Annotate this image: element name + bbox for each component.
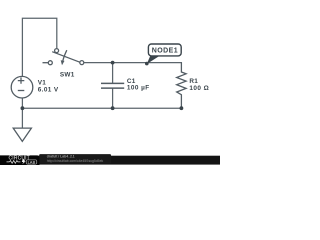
wire bottom rail	[22, 107, 181, 109]
SW1 lever	[52, 52, 80, 63]
C1 bottom plate	[101, 87, 124, 89]
ground	[13, 128, 31, 141]
svg-text:100 µF: 100 µF	[127, 85, 150, 92]
wire C1 top lead	[112, 63, 114, 84]
node NODE1 attach dot	[145, 62, 149, 66]
svg-text:http://circuitlab.com/c4e45Ssu: http://circuitlab.com/c4e45Ssug5d5ek	[47, 159, 104, 163]
svg-text:SW1: SW1	[60, 71, 75, 78]
junction dot C1 bottom	[111, 106, 115, 110]
capacitor C1	[101, 83, 124, 88]
SW1 arrowhead	[61, 60, 65, 65]
SW1 right throw terminal	[80, 61, 84, 65]
SW1 left throw stub	[43, 62, 49, 64]
switch SW1	[43, 49, 84, 65]
SW1 left throw terminal	[48, 61, 52, 65]
junction dot R1 bottom	[180, 106, 184, 110]
resistor R1	[177, 63, 186, 109]
node NODE1 flag tail	[147, 55, 161, 64]
svg-text:LAB: LAB	[28, 160, 36, 164]
junction dot C1 top	[111, 61, 115, 65]
voltage source V1	[11, 76, 33, 98]
node NODE1 flag box	[148, 44, 181, 56]
SW1 pole terminal	[55, 49, 59, 53]
svg-text:100 Ω: 100 Ω	[189, 85, 209, 92]
wire switch right throw to R1 top	[84, 62, 181, 64]
SW1 actuation arrow	[63, 50, 67, 61]
watermark logo block	[0, 154, 220, 167]
svg-text:R1: R1	[189, 78, 198, 85]
svg-text:6.01 V: 6.01 V	[38, 86, 59, 93]
C1 top plate	[101, 82, 124, 84]
wire V1 bottom to ground	[21, 98, 23, 128]
watermark full-width bar	[0, 156, 220, 165]
svg-text:NODE1: NODE1	[152, 48, 178, 55]
wire C1 bottom lead	[112, 88, 114, 108]
junction dot V1 bottom	[21, 106, 25, 110]
wire top-left loop V1 top to switch pole	[22, 18, 56, 76]
